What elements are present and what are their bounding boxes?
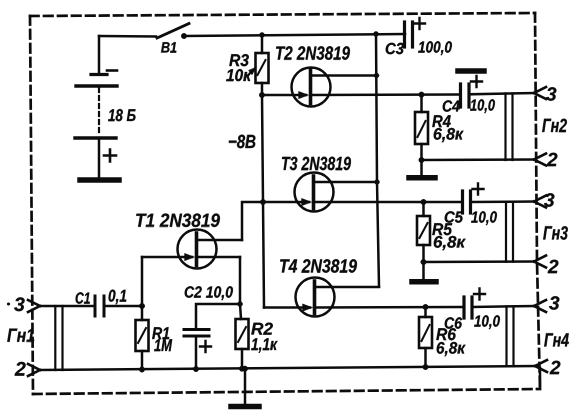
transistor T2 2N3819 — [262, 46, 459, 106]
ground for R4 — [409, 160, 435, 178]
transistor T3 2N3819 — [263, 157, 461, 212]
resistor R3 10k — [226, 35, 268, 95]
connector Гн1 pin 3 — [7, 297, 40, 312]
battery GB 18V — [75, 36, 136, 180]
shield lines Гн1 — [55, 306, 62, 370]
capacitor C1 0,1 — [76, 290, 127, 316]
shield lines Гн3 — [506, 202, 513, 262]
node R6 top — [423, 304, 429, 310]
wire R4 bottom to Гн2 pin2 — [422, 158, 535, 161]
connector Гн2 pin 3 — [534, 87, 556, 101]
node top rail / drain bus — [373, 31, 378, 36]
capacitor C5 10,0 — [445, 184, 534, 226]
ground for C3 — [458, 68, 484, 74]
node C2 bottom — [193, 366, 199, 372]
node R5 top — [421, 199, 427, 205]
node R4 bottom — [419, 157, 425, 163]
wire Гн1 pin3 to C1 — [40, 305, 93, 308]
wire R5 bottom to Гн3 pin2 — [424, 260, 535, 263]
wire top rail — [184, 34, 405, 36]
node R4 top — [419, 92, 425, 98]
connector Гн1 pin 2 — [15, 362, 40, 376]
label -8V — [229, 135, 256, 149]
wire C1 to gate node — [104, 305, 142, 308]
wire C2 branch — [196, 304, 240, 327]
wire T1 source down to R2/C2 node — [240, 257, 241, 319]
node drain bus / T3 drain — [375, 180, 380, 185]
label Гн3 — [543, 226, 568, 240]
connector Гн4 pin 3 — [534, 296, 559, 312]
resistor R4 6,8k — [415, 95, 464, 160]
wire drain bus vertical — [376, 34, 379, 287]
switch B1 — [157, 24, 189, 53]
node R5 bottom — [421, 259, 427, 265]
wire T1 gate line — [141, 257, 144, 306]
node R1 bottom — [139, 367, 145, 373]
wire battery to switch — [99, 35, 156, 38]
label Гн2 — [542, 119, 567, 132]
transistor T4 2N3819 — [264, 259, 462, 316]
node R6 bottom on rail — [423, 364, 429, 370]
shield lines Гн4 — [507, 306, 514, 366]
resistor R5 6,8k — [417, 202, 466, 262]
ground chassis bottom center — [231, 369, 259, 407]
node C1/R1/T1 gate — [139, 303, 145, 309]
connector Гн2 pin 2 — [534, 153, 557, 166]
capacitor C4 10,0 — [443, 76, 534, 113]
node top rail / R3 — [259, 32, 264, 37]
capacitor C3 100,0 — [386, 18, 452, 55]
wire Гн4 pin2 corner to border — [539, 368, 542, 388]
node drain bus / T2 drain — [374, 73, 379, 78]
resistor R6 6,8k — [419, 307, 466, 367]
capacitor C6 10,0 — [445, 289, 534, 330]
node ground stem — [242, 366, 248, 372]
shield lines Гн2 — [506, 93, 513, 160]
transistor T1 2N3819 — [136, 214, 242, 269]
resistor R2 1,1k — [236, 319, 278, 369]
node gate bus / T3 row — [260, 199, 266, 205]
connector Гн3 pin 2 — [534, 256, 558, 274]
resistor R1 1M — [136, 306, 173, 370]
label Гн1 — [7, 329, 34, 342]
wire gate bus vertical — [262, 95, 264, 308]
capacitor C2 10,0 — [184, 286, 233, 370]
connector Гн3 pin 3 — [534, 193, 554, 207]
wire bottom rail — [40, 366, 535, 370]
node R2 bottom — [239, 366, 245, 372]
connector Гн4 pin 2 — [535, 360, 560, 374]
node R3 bottom / T2 gate — [259, 92, 265, 98]
ground for R5 — [412, 262, 436, 282]
node T1 source / R2 / C2 — [237, 301, 242, 306]
label Гн4 — [544, 333, 569, 346]
wire T1 drain up to gate bus — [242, 202, 263, 240]
